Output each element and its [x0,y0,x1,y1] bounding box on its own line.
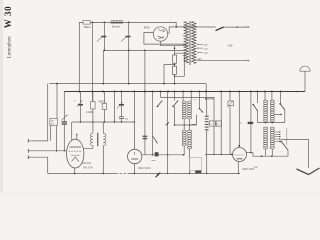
wire antenna 1 [31,140,47,142]
svg-text:REN 904: REN 904 [138,166,151,170]
wire [220,92,222,155]
junction [134,173,136,175]
transformer T1 secondary winding [192,22,196,64]
loudspeaker arrow [297,168,320,175]
junction [174,76,176,78]
wire [286,128,288,145]
wire [174,106,176,125]
junction [271,155,273,157]
junction [92,22,94,24]
tube V1 pin cathode [74,168,76,174]
trimmer capacitor C1 [101,36,106,38]
junction [189,124,191,126]
junction [74,173,76,175]
wire mains top [223,26,248,28]
svg-text:RE 074: RE 074 [84,165,93,169]
junction [128,83,130,85]
junction [152,154,154,156]
wire coil link y125 [175,124,197,126]
ground wire right [129,172,240,174]
wire antenna 2 [31,150,66,152]
wire padder left [191,115,196,125]
junction [56,150,57,151]
wire V3 anode feed [238,92,240,148]
mains plug arrow bottom [244,60,250,62]
junction [128,22,130,24]
band switch S2 [158,101,163,107]
resistor R10 [172,55,176,63]
wire bleeder tap [164,65,175,84]
wire AF to V3 [205,153,234,155]
capacitor block C5 [50,118,58,125]
wire [189,149,191,173]
tube V3 electrodes [235,154,244,156]
tap 110 [197,43,203,45]
wire [92,92,94,102]
wire [144,92,146,155]
trimmer capacitor C7 [78,104,83,106]
junction [167,173,169,175]
junction [102,83,104,85]
wire [49,126,51,141]
wire under output coils [253,153,288,157]
tube V2 cathode pin [133,164,135,174]
wire [265,149,267,156]
wire filament left [144,33,186,45]
junction [128,50,130,52]
junction [174,124,176,126]
wire [152,92,154,155]
trimmer capacitor C2 [125,36,130,38]
junction [114,121,116,123]
wire [128,37,130,50]
wire [198,92,200,109]
junction [104,50,106,52]
junction [265,122,267,124]
wire top hv [169,26,216,28]
junction [56,83,58,85]
wire anode up [168,27,170,33]
wire T2 prim top [92,122,94,133]
padder capacitor C10 [205,115,209,117]
svg-text:~220: ~220 [227,45,233,48]
wire T2 prim bottom [84,146,93,149]
wire [271,92,273,101]
wire [280,92,282,104]
junction [183,124,185,126]
wire [183,146,185,155]
wire [264,92,266,101]
junction [103,173,105,175]
junction [104,121,106,123]
wire [103,37,105,50]
tap 150 [197,51,203,53]
junction [175,26,177,28]
junction [205,98,207,100]
dial lamp La1 [300,66,310,71]
svg-text:RE 034: RE 034 [82,161,91,165]
capacitor C9 [119,116,124,118]
resistor R11 [172,66,176,74]
wire [56,126,58,151]
wire rail1 right corner [205,84,207,99]
wire selector up [287,150,289,156]
AF transformer T2 core [97,133,99,147]
antenna terminal 2 [27,149,29,153]
coil L3 lower [264,127,268,129]
wave switch S3 [173,101,178,107]
wire link y122.6 [258,122,285,124]
wave switch S4 [199,109,203,113]
earth terminal [27,155,29,159]
junction [296,91,298,93]
wire to speaker [281,140,309,169]
wire filament bottom [161,41,187,46]
resistor R1 [91,102,95,110]
coil tap [274,114,281,116]
trimmer capacitor C12 [228,101,234,106]
tube V1 pin anode [76,135,78,140]
grid tick [166,122,169,125]
tube V1 electrodes [70,146,82,148]
antenna terminal 1 [27,139,29,143]
wire [144,50,146,91]
trimmer capacitor C8 [119,104,124,106]
wire [103,22,105,35]
wire [174,92,176,101]
coil L4 lower [270,127,274,129]
AF transformer T2 secondary [103,133,106,145]
wire [257,92,259,104]
rail 2 junction dots [78,91,80,93]
tube V3 envelope [233,148,247,162]
chassis ground [156,173,161,178]
wire [167,92,169,174]
rail 1 (HT bus) [49,83,206,85]
rail 3 [161,97,214,99]
wire [213,99,215,154]
wire y98.9 link [205,98,214,100]
wire [56,84,58,119]
wire [103,92,105,104]
trimmer capacitor C6 [62,121,67,122]
potentiometer P1 [155,152,159,156]
wire [284,110,286,123]
wire [257,111,259,123]
svg-text:W 30: W 30 [3,6,13,29]
svg-text:0,1MΩ: 0,1MΩ [86,111,93,114]
wire [208,123,211,125]
wire [183,119,185,130]
svg-text:100µA: 100µA [84,26,91,29]
junction [174,64,176,66]
wire [229,92,231,102]
tube V3 cathode pin [237,162,239,174]
wire antenna up [47,84,49,141]
wire fuse right [90,21,110,23]
junction [237,26,238,27]
svg-text:300: 300 [217,124,220,126]
wire link [160,92,162,98]
wire fuse left [79,22,83,91]
wire T2 sec bottom [102,146,104,174]
wire [206,130,208,174]
wire [63,125,65,151]
transformer T1 core [188,21,190,65]
coil L2 lower [188,130,192,132]
wire [206,99,208,116]
junction [174,48,176,50]
AF transformer T2 primary [90,133,93,145]
wire [63,116,65,122]
wire [128,22,130,35]
tube V2 envelope [128,149,142,163]
ground wire [48,172,116,174]
junction [250,152,252,154]
wire vertical from fuse node [92,22,94,101]
svg-text:Lumophon: Lumophon [7,36,12,58]
wire mains bottom [196,60,248,62]
wire between resistors [174,63,176,66]
wire [190,92,192,102]
wire bleeder top [174,46,176,55]
wire AF line [142,154,184,156]
coil L1 lower [182,130,186,132]
wire bleeder bypass [175,53,185,76]
choke Dr1 [111,20,123,22]
mains plug arrow top [244,26,250,28]
wire [182,92,184,102]
junction [144,50,146,52]
wire T2 sec top [102,122,104,133]
wire [120,118,122,122]
output taps [274,131,279,133]
power switch S1 [216,27,224,31]
svg-text:RGN: RGN [144,25,150,29]
tube V1 envelope [67,139,84,168]
ground wire dashed [116,172,130,174]
svg-text:Drossel: Drossel [112,26,120,29]
wire [79,92,81,104]
junction [261,155,263,157]
wire bleeder bottom [174,74,176,83]
wire [250,92,252,153]
tube V1 pin grid [71,122,73,140]
junction [92,121,94,123]
wave switch S6 [280,104,284,110]
capacitor C15 [143,136,148,137]
junction [272,122,274,124]
junction [121,121,123,123]
tap 125 [197,47,203,49]
wire rail2 left corner [63,92,65,116]
junction [80,121,82,123]
coil L4 upper [270,100,274,102]
wire earth [31,157,47,173]
resistor R2 [102,103,106,109]
wire [114,92,116,123]
coil L1 upper [182,101,186,103]
wire choke to corner [123,22,176,27]
junction [64,150,65,151]
svg-text:500: 500 [51,121,54,123]
svg-text:150: 150 [210,124,213,126]
junction [206,173,208,175]
capacitor C11 [209,121,215,126]
svg-text:RES 964: RES 964 [242,167,254,171]
wire [120,92,122,105]
coil L2 upper [188,101,192,103]
junction [134,121,136,123]
wire y50 [103,49,186,51]
fuse F1 [83,21,90,25]
capacitor block C13 [190,158,202,171]
coil L3 upper [264,100,268,102]
wire V3 anode out [247,152,254,154]
tube V2 electrodes [134,152,136,155]
junction [104,22,106,24]
rail 2 (main bus) [64,91,305,93]
wire grid line y122 [72,121,135,123]
wire [102,50,104,83]
junction [231,154,233,156]
svg-text:500: 500 [51,124,54,126]
coupling capacitor C14 [248,122,254,124]
junction [167,154,169,156]
wave switch S5 [253,105,257,111]
tap selector arrow [281,141,289,151]
tap wires left [182,26,185,28]
transformer T1 primary winding [184,22,188,64]
rectifier tube V4 RGN [153,27,167,41]
junction [174,83,176,85]
wire [128,50,130,83]
wire V2 anode feed [133,92,135,150]
junction [163,83,165,85]
